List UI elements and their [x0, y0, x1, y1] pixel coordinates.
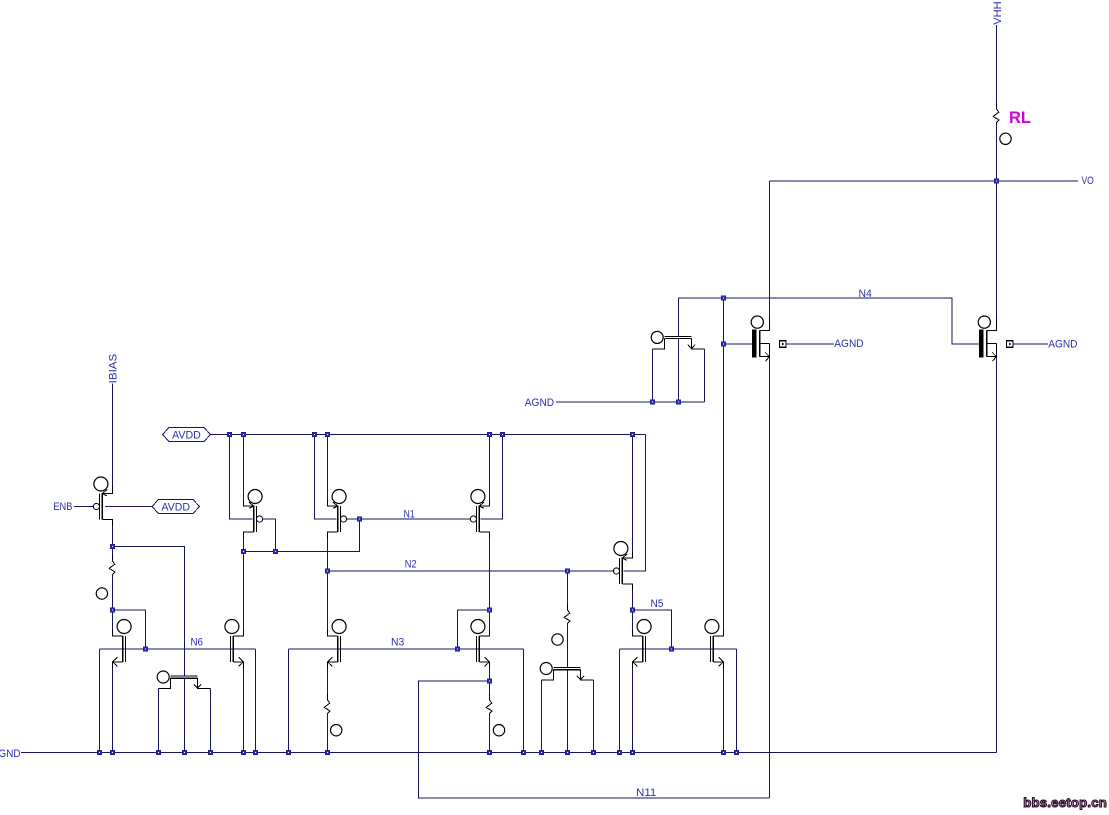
transistor M6 (NMOS diode)	[113, 620, 132, 669]
junction GND rail	[487, 750, 492, 755]
bulk pin of M12	[780, 341, 787, 348]
wire M7 source down	[243, 668, 245, 753]
svg-text:N1: N1	[404, 508, 415, 520]
junction GND rail	[156, 750, 161, 755]
wire VO net	[770, 180, 1079, 182]
transistor M1 (ENB switch PMOS)	[93, 477, 112, 526]
wire M2 drain down	[243, 538, 245, 631]
svg-text:VO: VO	[1082, 175, 1095, 187]
wire AGND net upper	[556, 401, 705, 403]
wire M8 bulk down	[288, 649, 290, 753]
wire M4 bulk from AVDD	[480, 435, 502, 520]
wire N4 net	[679, 298, 979, 344]
junction node N4	[721, 296, 726, 301]
transistor M8 (NMOS mirror)	[328, 620, 347, 669]
wire M2 bulk from AVDD	[230, 435, 253, 520]
resistor R2	[324, 694, 330, 719]
svg-text:AGND: AGND	[525, 397, 554, 409]
net label AVDD b	[152, 500, 200, 514]
wire M4 source from AVDD	[489, 435, 491, 501]
wire VO down drain of M12	[769, 181, 771, 318]
wire MC3 left lead	[541, 680, 543, 753]
junction GND rail	[241, 750, 246, 755]
wire ENB lead	[74, 506, 94, 508]
wire M2 gate lead	[262, 519, 276, 552]
wire M11 drain to N4	[723, 298, 725, 631]
wire MC3 right lead	[593, 680, 595, 753]
wire MC3 mid lead	[567, 670, 569, 753]
transistor M13 (output power MOS)	[978, 316, 996, 361]
wire M3 bulk from AVDD	[315, 435, 337, 520]
junction AVDD rail	[312, 432, 317, 437]
wire VHH supply	[996, 25, 998, 109]
wire VO down drain of M13	[996, 181, 998, 318]
junction GND rail	[286, 750, 291, 755]
svg-text:AGND: AGND	[834, 338, 863, 350]
wire M5 bulk from AVDD rail end	[623, 435, 645, 572]
wire N5 jog	[633, 610, 672, 649]
capacitor MC2 (MOS cap)	[157, 671, 210, 689]
junction node M12 gate	[721, 342, 726, 347]
junction GND rail	[539, 750, 544, 755]
wire jog R1 to N6	[113, 610, 146, 649]
wire M6 source down	[112, 668, 114, 753]
pin marker of R1	[96, 588, 107, 599]
wire N2 to R4	[567, 571, 569, 610]
junction node N6	[143, 647, 148, 652]
junction GND rail	[721, 750, 726, 755]
svg-text:N5: N5	[651, 598, 664, 610]
junction AVDD rail	[227, 432, 232, 437]
wire M1 bulk to AVDD	[105, 506, 152, 508]
svg-text:VHH: VHH	[992, 1, 1004, 24]
wire M10 bulk down	[619, 649, 621, 753]
junction AVDD rail	[325, 432, 330, 437]
wire M6 bulk down	[99, 649, 101, 753]
bulk pin of M13	[1007, 341, 1014, 348]
wire MC2 left lead	[158, 689, 160, 753]
wire R4 to MC3	[567, 624, 569, 668]
wire M12 bulk to AGND	[786, 343, 834, 345]
pin marker of R4	[552, 634, 563, 645]
junction node R1 bottom	[110, 608, 115, 613]
junction node N2 left	[325, 569, 330, 574]
wire M13 bulk to AGND	[1013, 343, 1048, 345]
svg-text:AGND: AGND	[1048, 338, 1077, 350]
svg-text:N2: N2	[405, 559, 417, 571]
wire jog to MC2 gate	[113, 547, 185, 677]
capacitor MC1 (MOS cap)	[651, 331, 704, 349]
wire R3 to GND	[489, 714, 491, 753]
transistor M5 (second stage PMOS)	[613, 542, 632, 591]
wire M9 source to R3	[489, 668, 491, 700]
svg-text:N6: N6	[191, 636, 204, 648]
wire M1 drain chain	[112, 525, 114, 561]
svg-text:GND: GND	[0, 748, 21, 760]
junction node M9 drain	[487, 608, 492, 613]
wire M8 source to R2	[327, 668, 329, 700]
transistor M7 (NMOS mirror)	[225, 620, 244, 669]
wire N5 row gate line	[620, 648, 737, 650]
junction GND rail	[97, 750, 102, 755]
wire N6 row gate line	[100, 648, 256, 650]
junction GND rail	[630, 750, 635, 755]
junction GND rail	[734, 750, 739, 755]
wire M13 source to GND	[996, 357, 998, 752]
pin marker of R2	[331, 725, 342, 736]
transistor M3 (PMOS mirror)	[328, 490, 347, 539]
junction AVDD rail	[500, 432, 505, 437]
svg-text:AVDD: AVDD	[161, 501, 190, 513]
junction GND rail	[521, 750, 526, 755]
wire RL to VO	[996, 123, 998, 182]
transistor M12 (output power MOS)	[751, 316, 769, 361]
wire MC1 mid lead	[678, 339, 680, 402]
wire GND rail	[21, 752, 997, 754]
wire MC1 left lead	[652, 349, 654, 402]
junction GND rail	[325, 750, 330, 755]
svg-text:N3: N3	[391, 637, 404, 649]
junction node drain M1	[110, 544, 115, 549]
junction GND rail	[617, 750, 622, 755]
wire N11 net	[419, 681, 770, 798]
junction GND rail	[591, 750, 596, 755]
wire MC1 right lead	[704, 349, 706, 402]
junction GND rail	[208, 750, 213, 755]
pin marker of RL	[1000, 133, 1011, 144]
wire M3 drain down	[327, 538, 329, 631]
junction GND rail	[253, 750, 258, 755]
wire AVDD rail	[211, 434, 646, 436]
wire gate tap of M12	[724, 343, 752, 345]
resistor R1	[109, 555, 115, 580]
junction AVDD rail	[487, 432, 492, 437]
svg-text:N11: N11	[636, 787, 656, 799]
transistor M4 (PMOS mirror)	[470, 490, 489, 539]
wire M5 source from AVDD	[632, 435, 634, 553]
junction node N3 gate	[455, 647, 460, 652]
junction node N2 right	[565, 569, 570, 574]
wire M11 bulk down	[736, 649, 738, 753]
svg-text:ENB: ENB	[53, 501, 72, 513]
wire MC2 right lead	[210, 689, 212, 753]
svg-text:IBIAS: IBIAS	[107, 354, 119, 384]
wire M2 diode wire	[244, 519, 360, 552]
wire M10 source down	[632, 668, 634, 753]
junction node N5	[630, 608, 635, 613]
resistor RL	[993, 103, 999, 128]
wire M2 source from AVDD	[243, 435, 245, 501]
watermark bbs.eetop.cn	[1023, 795, 1107, 810]
pin marker of R3	[493, 725, 504, 736]
svg-text:RL: RL	[1009, 109, 1031, 127]
wire M4 drain down	[489, 538, 491, 631]
wire M9 diode jog	[458, 610, 490, 649]
wire R2 to GND	[327, 714, 329, 753]
junction GND rail	[565, 750, 570, 755]
wire MC2 mid lead	[184, 678, 186, 752]
wire M7 bulk down	[255, 649, 257, 753]
transistor M9 (NMOS diode)	[471, 620, 490, 669]
wire N2 net	[328, 570, 615, 572]
junction node AGND a	[650, 400, 655, 405]
junction node AGND b	[676, 400, 681, 405]
junction gate node M2	[273, 549, 278, 554]
resistor R4	[564, 604, 570, 629]
junction GND rail	[110, 750, 115, 755]
junction diode node M2	[241, 549, 246, 554]
wire N3 row gate line	[289, 648, 524, 650]
junction node N11 tap	[487, 679, 492, 684]
transistor M10 (NMOS)	[633, 620, 652, 669]
junction GND rail	[182, 750, 187, 755]
svg-text:N4: N4	[859, 288, 872, 300]
wire M3 source from AVDD	[327, 435, 329, 501]
junction AVDD rail	[630, 432, 635, 437]
net label AVDD a	[163, 428, 211, 442]
wire M11 source down	[723, 668, 725, 753]
transistor M11 (NMOS)	[705, 620, 724, 669]
wire N1 net	[346, 518, 471, 520]
wire M12 source to N11	[769, 357, 771, 798]
junction node N1	[357, 517, 362, 522]
wire R1 to N6 diode node	[112, 575, 114, 631]
wire M9 bulk down	[523, 649, 525, 753]
resistor R3	[486, 694, 492, 719]
wire IBIAS lead	[112, 384, 114, 488]
junction AVDD rail	[241, 432, 246, 437]
junction node VO	[994, 179, 999, 184]
transistor M2 (PMOS mirror diode)	[244, 490, 263, 539]
wire M5 drain to N5	[632, 590, 634, 631]
junction node N5 gate	[669, 647, 674, 652]
svg-text:AVDD: AVDD	[172, 429, 201, 441]
capacitor MC3 (MOS cap)	[540, 663, 593, 681]
